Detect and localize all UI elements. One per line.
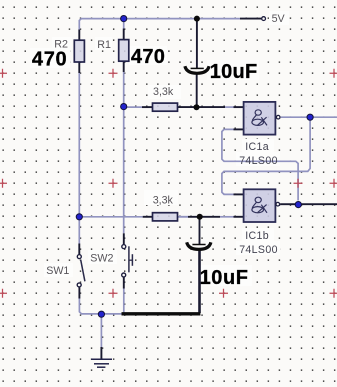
wire IC1b upper input stub [234, 193, 244, 195]
wire SW1 bottom to node [79, 299, 121, 314]
svg-text:IC1b: IC1b [245, 230, 269, 242]
DARK WIRES [79, 19, 337, 359]
svg-text:10uF: 10uF [200, 267, 249, 289]
wire feedback IC1b out to IC1a input [222, 129, 298, 200]
labels IC [239, 141, 278, 256]
wire R2 bottom stub [78, 62, 80, 73]
svg-text:3,3k: 3,3k [153, 86, 174, 98]
svg-text:74LS00: 74LS00 [239, 244, 278, 256]
svg-text:10uF: 10uF [210, 61, 258, 83]
labels small gray [46, 13, 285, 277]
svg-text:SW1: SW1 [46, 265, 69, 277]
wire row2 mid [220, 216, 234, 218]
wire SW2 bottom stub [123, 277, 125, 288]
resistor R2 [74, 40, 84, 62]
ground [91, 359, 112, 367]
wire ground stub [100, 347, 102, 359]
node junction dots black [194, 16, 203, 220]
NAND gate IC1a (74LS00) [244, 102, 280, 135]
label backgrounds [30, 11, 289, 286]
wire top rail [79, 19, 240, 30]
wire row2 resistor stub right light-dark [178, 216, 189, 218]
wire R2 bottom column [78, 73, 80, 244]
switch SW2 [122, 245, 133, 277]
wire R2 top stub [78, 30, 80, 41]
wire IC1a lower input stub [234, 128, 244, 130]
wire IC1b output to right edge [301, 203, 337, 205]
node junction dots blue [76, 16, 313, 318]
svg-text:74LS00: 74LS00 [239, 155, 278, 167]
wire SW2 bottom [123, 289, 125, 314]
wire SW1 bottom stub [78, 287, 80, 298]
wire capacitor C1 bottom lead [196, 74, 198, 107]
grid cross markers [0, 69, 337, 298]
wire row2 IC1b stub [234, 216, 244, 218]
svg-text:IC1a: IC1a [245, 141, 269, 153]
wire capacitor C2 top lead [199, 217, 201, 244]
wire R1 top stub [123, 29, 125, 40]
NAND gate IC1b (74LS00) [244, 189, 280, 222]
wire ground-rail thick black [122, 312, 201, 315]
wire ground top [100, 314, 102, 347]
LIGHT WIRES [79, 19, 337, 347]
resistor R1 [119, 40, 129, 62]
labels values bold [32, 46, 258, 289]
resistor 3,3k top [153, 103, 178, 111]
wire R1 bottom column [123, 72, 125, 233]
wire feedback IC1a out to IC1b input [222, 121, 310, 195]
wire SW1 top stub [78, 244, 80, 255]
svg-text:470: 470 [131, 46, 165, 68]
wire R1 bottom stub [123, 61, 125, 72]
wire row1 IC1a stub [234, 106, 244, 108]
5V terminal [262, 17, 266, 21]
wire row2 left [81, 216, 143, 218]
grid cross marker over wire [294, 179, 303, 188]
wire SW2 top stub [123, 233, 125, 244]
svg-text:R1: R1 [97, 39, 111, 51]
svg-text:470: 470 [32, 49, 67, 71]
wire IC1b output left [280, 203, 296, 205]
svg-text:5V: 5V [272, 13, 286, 25]
svg-text:SW2: SW2 [90, 253, 113, 265]
switch SW1 [77, 255, 85, 287]
wire row2 right [188, 216, 220, 218]
capacitor C2 [187, 242, 211, 249]
wire row1 resistor stub left [142, 106, 153, 108]
wire row1 mid [225, 106, 234, 108]
wire capacitor C2 bottom lead [198, 250, 201, 313]
capacitor C1 [185, 66, 209, 73]
resistor 3,3k bottom [153, 213, 178, 221]
wire row2 resistor stub left [143, 216, 153, 218]
wire IC1a output to right edge [281, 116, 337, 118]
wire row1 right [178, 106, 226, 108]
svg-text:3,3k: 3,3k [153, 194, 174, 206]
wire capacitor C1 top lead [196, 19, 198, 68]
wire 5V stub [240, 18, 261, 20]
wire row1 left [125, 106, 142, 108]
wire R1 top [123, 19, 125, 29]
